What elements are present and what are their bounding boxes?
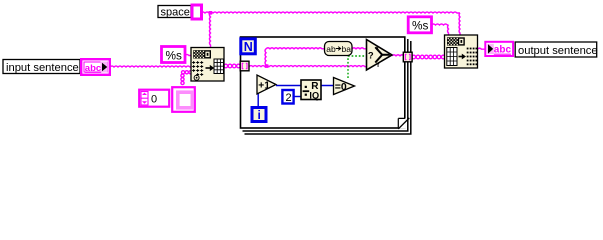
svg-text:ba: ba bbox=[342, 44, 352, 54]
wire: drop from top rail into Array To Spreadsheet String delimiter bbox=[459, 13, 460, 35]
wire: Equal To Zero output to Select s (horizontal) bbox=[348, 55, 367, 57]
svg-text:N: N bbox=[244, 40, 253, 54]
wire: Select output to loop output tunnel bbox=[392, 55, 404, 56]
auto-index output tunnel bbox=[403, 52, 412, 62]
for loop frame inner border bbox=[241, 37, 405, 128]
loop count terminal N bbox=[241, 39, 256, 54]
constant: %s format string (right) bbox=[408, 17, 431, 33]
wire: %s constant drop into function bbox=[448, 25, 449, 35]
wire: words array to loop input tunnel bbox=[224, 64, 228, 68]
constant: space string bbox=[192, 5, 202, 19]
wire: word branch vertical bbox=[265, 49, 266, 67]
increment +1 node bbox=[257, 75, 276, 94]
wire: space constant top rail to Array To Spreadsheet String bbox=[201, 12, 460, 13]
function: Select bbox=[367, 40, 393, 71]
wire: i terminal to +1 bbox=[257, 85, 259, 107]
svg-text:i: i bbox=[258, 108, 261, 122]
wire: %s constant to Spreadsheet String To Array format input bbox=[185, 55, 191, 56]
junction on space wire bbox=[209, 11, 213, 15]
wire: word branch to Reverse String bbox=[266, 48, 325, 49]
label: input sentence bbox=[3, 60, 80, 74]
comparison: Equal To 0? bbox=[334, 78, 355, 95]
function: Quotient and Remainder bbox=[301, 80, 321, 101]
for loop frame outer shadow line bbox=[245, 41, 411, 134]
svg-text:2: 2 bbox=[286, 92, 292, 104]
wire: result array from tunnel to Array To Spreadsheet String bbox=[412, 55, 416, 59]
svg-text:output sentence: output sentence bbox=[518, 45, 598, 57]
junction on word wire bbox=[265, 64, 269, 68]
wire: constant 2 to Quotient Remainder bbox=[294, 96, 301, 98]
svg-text:0: 0 bbox=[151, 94, 157, 106]
function: Reverse String ab-ba bbox=[325, 42, 353, 56]
function: Array To Spreadsheet String bbox=[445, 35, 478, 68]
wire: Equal To Zero output up to Select s (vertical) bbox=[347, 56, 349, 78]
svg-text:IQ: IQ bbox=[309, 91, 319, 101]
wire: joined sentence to output sentence terminal bbox=[478, 48, 486, 49]
svg-text:space: space bbox=[161, 6, 190, 18]
wire: +1 output through Quotient Remainder to Equal To Zero bbox=[276, 85, 334, 87]
svg-text:input sentence: input sentence bbox=[6, 62, 79, 74]
terminal: input sentence string control abc bbox=[81, 59, 110, 75]
svg-text:abc: abc bbox=[85, 63, 101, 74]
svg-text:%s: %s bbox=[412, 19, 428, 33]
svg-text:?: ? bbox=[368, 51, 374, 62]
svg-text:%s: %s bbox=[166, 48, 182, 62]
svg-text:ab: ab bbox=[326, 44, 336, 54]
wire: string array type constant horizontal segment bbox=[182, 71, 185, 74]
svg-text:abc: abc bbox=[494, 45, 512, 56]
constant: %s format string (left) bbox=[162, 47, 186, 63]
svg-text:+1: +1 bbox=[258, 81, 270, 92]
loop resize corner fold bbox=[398, 118, 409, 129]
auto-index input tunnel bbox=[240, 61, 249, 71]
wire: indexed word from tunnel to Select f input bbox=[249, 66, 367, 67]
wire: Reverse String output to Select t input bbox=[352, 48, 367, 49]
function: Spreadsheet String To Array bbox=[191, 48, 224, 82]
constant: string array - index display bbox=[139, 90, 169, 107]
terminal: output sentence string indicator abc bbox=[485, 42, 513, 56]
label: space bbox=[158, 6, 191, 18]
wire: drop from top rail into Spreadsheet String To Array delimiter bbox=[210, 13, 211, 47]
wire: input sentence terminal to Spreadsheet String To Array bbox=[110, 66, 191, 67]
loop iteration terminal i bbox=[252, 108, 266, 122]
constant: string array - empty string element bbox=[172, 87, 195, 112]
for loop frame middle shadow line bbox=[243, 39, 408, 131]
constant: 2 bbox=[282, 90, 293, 104]
svg-text:=0: =0 bbox=[335, 81, 347, 93]
label: output sentence bbox=[515, 42, 597, 57]
wire: string array type constant vertical segment bbox=[181, 74, 184, 77]
wire: %s constant to Array To Spreadsheet String (horizontal) bbox=[432, 24, 449, 25]
